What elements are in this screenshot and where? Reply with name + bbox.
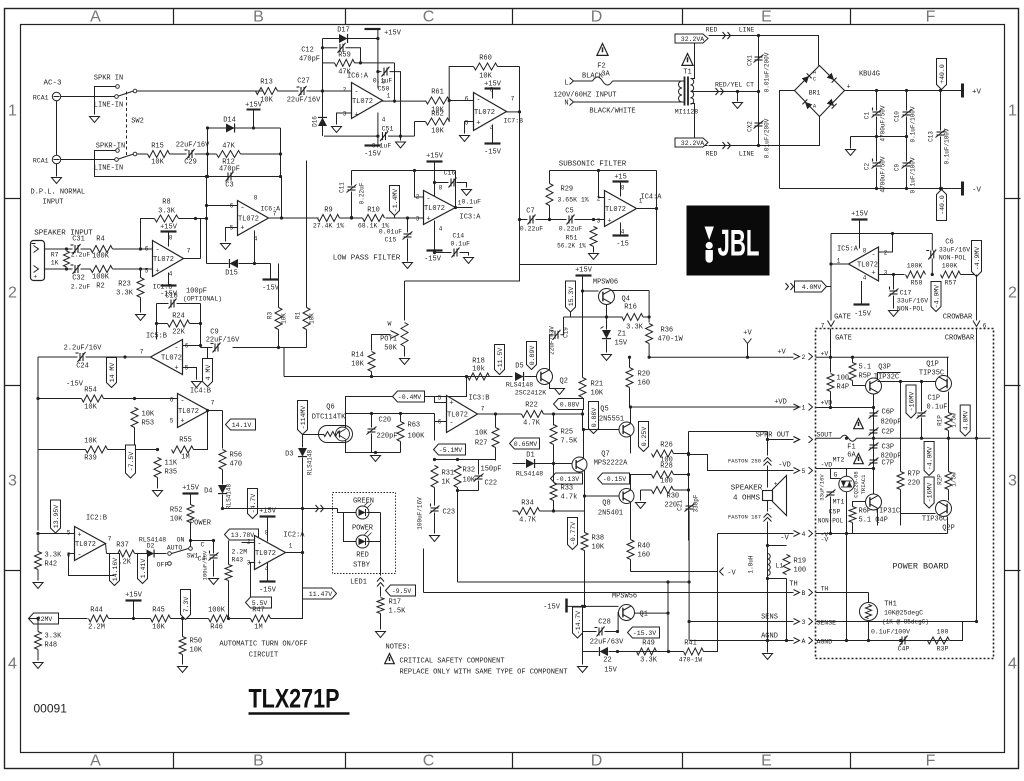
- svg-text:+: +: [476, 120, 480, 128]
- junction C1 top: [875, 89, 878, 92]
- svg-text:0.1uF/100V: 0.1uF/100V: [944, 128, 951, 164]
- test point 4.0MV: [795, 281, 827, 292]
- +V terminal bar: [961, 84, 964, 98]
- svg-text:330pF: 330pF: [693, 494, 700, 512]
- resistor R18: [468, 373, 490, 380]
- junction C2 bottom: [875, 187, 878, 190]
- resistor R15: [148, 151, 170, 158]
- svg-text:-: -: [257, 541, 261, 549]
- wire d15 right: [239, 263, 271, 265]
- wire -v up to row: [717, 534, 719, 572]
- wire r62 left col: [414, 122, 416, 137]
- svg-text:L1: L1: [776, 563, 784, 570]
- transformer T1 secondary coil: [691, 79, 694, 105]
- svg-text:3.3K: 3.3K: [45, 633, 63, 641]
- test point 0.89V q2: [527, 342, 537, 370]
- svg-text:C4: C4: [198, 556, 206, 563]
- svg-text:R59: R59: [338, 52, 351, 60]
- junction bus triac: [845, 532, 848, 535]
- junction r12 right: [279, 152, 282, 155]
- wire ic3a +15 stem: [434, 162, 436, 197]
- svg-text:SPKR-IN: SPKR-IN: [96, 143, 125, 151]
- junction subsonic left: [518, 218, 521, 221]
- wire mid row b col: [423, 549, 425, 593]
- test point -16MV b: [924, 477, 934, 508]
- zener Z1: [602, 330, 611, 339]
- svg-text:-15V: -15V: [364, 151, 382, 159]
- junction cx top: [757, 34, 760, 37]
- svg-text:+: +: [180, 418, 184, 426]
- svg-text:1: 1: [8, 103, 17, 120]
- junction r63 top: [399, 412, 402, 415]
- resistor R29: [546, 184, 553, 206]
- wire r23 bottom: [140, 298, 142, 313]
- wire c20 col2: [371, 434, 373, 453]
- wire r53 bottom: [134, 428, 136, 450]
- wire c4 col: [213, 541, 215, 554]
- wire subsonic to pot col: [405, 265, 520, 282]
- safety triangle MT2: [854, 454, 864, 464]
- thermistor TH1 element: [866, 605, 872, 619]
- zone tick bottom: [850, 753, 852, 769]
- junction row q1p a: [899, 380, 902, 383]
- wire r62 right leg: [448, 101, 450, 122]
- wire r28 right: [674, 474, 689, 476]
- svg-text:AUTO: AUTO: [167, 545, 183, 552]
- junction r51 top: [592, 218, 595, 221]
- wire q7 emitter: [584, 471, 586, 497]
- svg-text:C13: C13: [928, 131, 935, 142]
- wire pin4 stem: [377, 113, 379, 146]
- svg-text:JBL: JBL: [718, 223, 760, 264]
- svg-text:LED1: LED1: [350, 579, 367, 587]
- svg-text:32.2VA: 32.2VA: [681, 36, 705, 43]
- wire r55 right: [194, 411, 208, 450]
- junction d1 node: [552, 462, 555, 465]
- junction r53 top: [133, 397, 136, 400]
- wire tp51 stub: [434, 449, 435, 451]
- wire l1 r19 bottom: [768, 578, 787, 580]
- svg-text:INPUT: INPUT: [43, 199, 64, 207]
- test point -15.3V: [628, 627, 660, 638]
- svg-text:CX1: CX1: [747, 55, 754, 66]
- svg-text:D15: D15: [225, 270, 238, 278]
- junction r45 r50: [181, 617, 184, 620]
- svg-text:MPS2222A: MPS2222A: [594, 460, 628, 468]
- test point +40.0: [937, 59, 947, 90]
- svg-text:4: 4: [802, 531, 806, 538]
- junction r31 r32: [433, 458, 436, 461]
- bridge diode D1a: [802, 73, 812, 83]
- wire C2 bottom: [876, 168, 878, 189]
- wire d3 row to led col: [302, 509, 304, 519]
- svg-text:A: A: [802, 638, 806, 645]
- wire ic2b pin6 loop: [69, 554, 115, 576]
- svg-text:1.41V: 1.41V: [140, 559, 147, 579]
- capacitor C9b: [211, 343, 221, 353]
- wire r51 bottom: [593, 247, 595, 253]
- test point 0.88V b: [589, 402, 599, 434]
- wire ic7 col: [519, 67, 521, 220]
- wire q3p collector: [878, 373, 901, 380]
- svg-text:8: 8: [265, 530, 269, 537]
- junction q8 base: [583, 494, 586, 497]
- wire 22mv to r44: [59, 618, 88, 620]
- bridge diode D1b: [827, 73, 837, 83]
- wire c11 bottom: [351, 192, 353, 218]
- svg-text:33uF/16V: 33uF/16V: [819, 474, 826, 501]
- svg-text:-0.77V: -0.77V: [570, 522, 577, 546]
- wire ic3a pin4 stem: [434, 221, 436, 251]
- resistor R3: [275, 308, 282, 330]
- svg-text:10K: 10K: [479, 73, 492, 81]
- svg-text:0.1uF/100V: 0.1uF/100V: [910, 157, 917, 193]
- wire q2p emitter col: [947, 500, 949, 502]
- svg-text:KBU4G: KBU4G: [859, 71, 880, 79]
- wire c9 left: [201, 347, 213, 349]
- wire board -v row bottom: [852, 523, 854, 534]
- wire rca1 to sw: [61, 96, 115, 98]
- wire mid out to r9: [269, 217, 319, 219]
- wire L to fuse: [574, 80, 593, 82]
- fuse F2 symbol: [593, 77, 613, 85]
- junction q6 c20: [374, 451, 377, 454]
- svg-text:R20: R20: [638, 371, 651, 379]
- wire C29 to bus: [195, 153, 214, 155]
- junction C13 top: [939, 89, 942, 92]
- svg-text:RED: RED: [706, 27, 718, 34]
- svg-text:+15V: +15V: [125, 592, 143, 600]
- diode D2: [147, 550, 155, 558]
- wire gnd bus stem: [850, 137, 852, 149]
- wire c32 to r2: [81, 268, 91, 270]
- junction c7 c5: [548, 218, 551, 221]
- svg-text:GATE: GATE: [834, 314, 851, 322]
- svg-text:1: 1: [1008, 103, 1017, 120]
- resistor R1: [303, 308, 310, 330]
- svg-text:6: 6: [465, 96, 469, 103]
- op-amp IC3:B: [447, 396, 478, 433]
- wire r63 bottom: [400, 442, 402, 453]
- svg-text:Q8: Q8: [602, 500, 610, 508]
- svg-text:RED: RED: [706, 151, 718, 158]
- svg-text:ON: ON: [177, 537, 185, 544]
- junction c51 gnd: [399, 135, 402, 138]
- wire subsonic box right: [656, 171, 658, 265]
- resistor R14: [368, 352, 375, 372]
- svg-text:4700uF/50V: 4700uF/50V: [880, 156, 887, 192]
- supply +15V ic5a bar: [852, 218, 868, 220]
- wire c22 top: [478, 460, 480, 475]
- wire r49 to r41: [657, 651, 684, 653]
- LED1 dotted box: [333, 493, 396, 574]
- wire -V rail: [780, 188, 963, 190]
- wire r30 right: [674, 489, 689, 491]
- wire C10 leads: [906, 91, 908, 111]
- wire pot bottom: [404, 347, 406, 357]
- wire d3 top: [302, 435, 304, 448]
- svg-text:6: 6: [145, 246, 149, 253]
- wire r56 bottom: [222, 470, 224, 485]
- supply +15V r52 bar: [183, 492, 199, 494]
- svg-text:TH1: TH1: [884, 601, 897, 609]
- junction r20 top: [628, 356, 631, 359]
- svg-text:0.01uF/200V: 0.01uF/200V: [764, 52, 771, 92]
- svg-text:6A: 6A: [847, 452, 856, 460]
- junction sw1 r52: [189, 539, 192, 542]
- wire r5p top: [852, 357, 854, 362]
- wire ic3b out: [478, 413, 522, 415]
- wire c23 bottom: [434, 513, 436, 534]
- test point 1.41V: [138, 554, 148, 584]
- svg-text:-: -: [476, 97, 480, 105]
- svg-text:1/5w: 1/5w: [951, 472, 958, 487]
- bridge rectifier BR1 diamond: [795, 66, 845, 117]
- svg-text:TL072: TL072: [161, 355, 182, 363]
- wire c4 bottom: [213, 560, 215, 577]
- svg-text:0.01uF: 0.01uF: [379, 229, 403, 236]
- wire c19 row: [550, 334, 553, 336]
- svg-text:R17: R17: [389, 599, 402, 607]
- svg-text:-15.3V: -15.3V: [633, 630, 657, 637]
- svg-text:7: 7: [140, 349, 144, 356]
- wire c9 to bus corner: [233, 347, 285, 349]
- wire spk plus: [45, 268, 67, 270]
- capacitor C31: [71, 244, 81, 254]
- wire l1 r19 top: [768, 545, 787, 547]
- svg-text:Q2: Q2: [560, 378, 568, 386]
- svg-text:33uF/16V: 33uF/16V: [897, 298, 928, 305]
- resistor R48: [35, 632, 42, 650]
- svg-text:-0.15V: -0.15V: [603, 476, 627, 483]
- svg-text:+VD: +VD: [774, 399, 787, 407]
- wire ic2b out to r37: [107, 553, 115, 555]
- ground c16: [462, 190, 472, 196]
- capacitor C21: [685, 504, 695, 512]
- wire +15 stem d14: [253, 110, 255, 129]
- junction agnd c4p: [899, 639, 902, 642]
- svg-text:8: 8: [621, 185, 625, 192]
- svg-text:+V: +V: [743, 330, 752, 338]
- wire r48 bottom: [37, 650, 39, 661]
- svg-text:IC5:A: IC5:A: [837, 246, 859, 254]
- svg-text:-40.0: -40.0: [939, 195, 946, 215]
- wire ic4b out: [209, 410, 223, 412]
- svg-text:4.7K: 4.7K: [523, 420, 541, 428]
- test point 14.1V: [226, 419, 256, 430]
- wire r34 left: [513, 510, 518, 512]
- svg-text:BR1: BR1: [809, 90, 821, 97]
- svg-text:Q1P: Q1P: [926, 361, 939, 369]
- test point -0.15V: [598, 473, 630, 484]
- switch pole bottom: [115, 158, 119, 162]
- junction c21 row a: [688, 580, 691, 583]
- svg-text:CROWBAR: CROWBAR: [943, 314, 973, 322]
- triac TRIAC1: [839, 476, 854, 491]
- svg-text:Q3P: Q3P: [878, 364, 891, 372]
- junction sout right: [975, 437, 978, 440]
- wire out col to sout: [689, 431, 768, 433]
- wire q4 emitter: [606, 305, 608, 318]
- svg-text:R41: R41: [684, 640, 697, 648]
- svg-text:3: 3: [1008, 473, 1017, 490]
- wire subsonic box bottom: [520, 264, 657, 266]
- wire q1 col down: [582, 606, 584, 651]
- svg-text:C6P: C6P: [882, 409, 895, 417]
- connector arrows 4.0MV: [786, 283, 794, 290]
- wire r9 to r10: [340, 217, 363, 219]
- svg-text:-V: -V: [727, 570, 736, 578]
- wire -v row: [718, 533, 794, 535]
- wire board +vd row: [816, 407, 874, 409]
- svg-text:-VD: -VD: [778, 462, 791, 470]
- junction pin6 ic5b: [199, 344, 202, 347]
- connector arrows bottom line: [723, 142, 731, 149]
- svg-text:2: 2: [343, 87, 347, 94]
- svg-text:CQ220-08: CQ220-08: [853, 471, 860, 497]
- junction fb pin2: [321, 89, 324, 92]
- svg-text:1M: 1M: [181, 454, 189, 462]
- junction pin5 node: [139, 267, 142, 270]
- capacitor C3P: [869, 443, 879, 451]
- wire r26 right: [674, 453, 689, 455]
- wire q1 gnd: [582, 652, 584, 665]
- JBL logo exclamation: [705, 227, 714, 263]
- supply -15V ic7 bar: [485, 142, 501, 144]
- wire bus cont to q2: [467, 376, 513, 378]
- svg-text:T1: T1: [683, 69, 691, 77]
- svg-text:13.78V: 13.78V: [231, 532, 255, 539]
- transistor Q4: [599, 289, 615, 305]
- svg-text:R27: R27: [475, 440, 488, 448]
- resistor R31: [431, 466, 438, 488]
- junction gate +v: [829, 356, 832, 359]
- wire pin6 node: [183, 345, 201, 347]
- svg-text:D17: D17: [337, 27, 350, 35]
- wire bus to ic5b: [233, 347, 307, 349]
- ground c23: [430, 536, 440, 542]
- junction c11 bottom: [350, 216, 353, 219]
- wire r2p bottom: [948, 490, 950, 501]
- svg-text:MPSW56: MPSW56: [612, 593, 637, 601]
- capacitor C1: [872, 108, 882, 118]
- svg-text:FASTON 250: FASTON 250: [728, 458, 761, 465]
- wire speaker col top: [767, 440, 769, 456]
- supply +15V ic3a bar: [427, 160, 443, 162]
- svg-text:0.1uF: 0.1uF: [372, 143, 392, 150]
- wire tp14 stem: [111, 356, 113, 359]
- svg-text:10K: 10K: [152, 624, 165, 632]
- svg-text:-V: -V: [972, 187, 982, 195]
- svg-text:-16MV: -16MV: [908, 392, 915, 412]
- wire c6 col: [931, 234, 933, 251]
- wire q1 collector out: [635, 612, 669, 614]
- wire ic4a pin2 fb: [599, 171, 605, 198]
- resistor R44: [89, 615, 109, 622]
- transformer T1 primary coil: [679, 81, 683, 102]
- test point -16MV a: [906, 385, 916, 418]
- wire r8 right leg: [179, 218, 196, 220]
- wire r54 left: [38, 398, 82, 400]
- svg-text:7: 7: [481, 406, 485, 413]
- wire r52 bottom: [190, 523, 192, 541]
- wire r43 bottom to bus: [228, 581, 230, 619]
- svg-text:2N5401: 2N5401: [598, 510, 623, 518]
- resistor R56: [219, 450, 226, 470]
- ground ic7 pin5: [460, 136, 470, 142]
- wire r1p bottom: [948, 431, 950, 439]
- junction r32 top: [456, 458, 459, 461]
- wire r2 to pin5: [113, 268, 153, 270]
- svg-text:-V: -V: [780, 535, 789, 543]
- wire c5 to pin3: [575, 219, 605, 221]
- svg-text:2: 2: [802, 354, 806, 361]
- svg-text:+15: +15: [614, 174, 627, 182]
- test point -40.0: [937, 190, 947, 221]
- svg-text:4 OHMS: 4 OHMS: [733, 495, 761, 503]
- connector spkr out arrow: [794, 437, 800, 443]
- diode D15: [229, 259, 238, 268]
- svg-text:2N5551: 2N5551: [599, 416, 624, 424]
- capacitor C6: [926, 250, 936, 260]
- wire th1 col: [868, 593, 870, 603]
- wire ic2a out: [286, 552, 303, 554]
- wire R61 to pin6: [450, 100, 474, 102]
- ground c51: [396, 142, 406, 148]
- junction sout left: [845, 437, 848, 440]
- svg-text:22uF/16V: 22uF/16V: [206, 337, 240, 345]
- svg-text:C: C: [423, 9, 435, 26]
- wire ct gnd stem: [737, 92, 739, 102]
- svg-text:220: 220: [908, 480, 921, 488]
- svg-text:A: A: [90, 753, 101, 770]
- wire ic7 out: [506, 111, 520, 113]
- junction c3 left: [206, 175, 209, 178]
- svg-text:D.P.L. NORMAL: D.P.L. NORMAL: [31, 189, 86, 197]
- speaker input pin plus: [34, 266, 39, 273]
- wire bus to pin5: [435, 377, 467, 397]
- svg-text:100K: 100K: [92, 253, 110, 261]
- svg-text:R22: R22: [525, 402, 538, 410]
- transistor Q5: [619, 422, 634, 437]
- wire c3 row: [208, 176, 281, 178]
- test point -0.77V: [568, 518, 578, 550]
- svg-text:8: 8: [169, 235, 173, 242]
- ground r30: [636, 503, 646, 509]
- capacitor C2: [872, 159, 882, 169]
- wire q5 collector: [630, 407, 632, 424]
- svg-text:C12: C12: [301, 47, 314, 55]
- wire r56 col: [222, 411, 224, 449]
- svg-text:470-1W: 470-1W: [658, 336, 684, 344]
- capacitor C7: [528, 215, 536, 225]
- svg-text:AC-3: AC-3: [43, 80, 62, 88]
- test point 22MV: [29, 613, 59, 624]
- wire c50 right col: [390, 72, 401, 137]
- svg-text:6: 6: [170, 397, 174, 404]
- svg-text:0.1uF: 0.1uF: [451, 241, 471, 248]
- svg-text:5: 5: [170, 418, 174, 425]
- wire led red cathode: [367, 513, 381, 542]
- svg-text:R2: R2: [96, 283, 104, 291]
- connector -V arrow: [720, 568, 724, 576]
- wire ic2a -15 stem: [267, 563, 269, 582]
- svg-text:3.3K: 3.3K: [116, 290, 134, 298]
- supply +15V d14 bar: [247, 109, 261, 111]
- wire sens row: [690, 621, 794, 623]
- wire r49 junction up: [667, 582, 669, 652]
- svg-text:C11: C11: [339, 182, 346, 193]
